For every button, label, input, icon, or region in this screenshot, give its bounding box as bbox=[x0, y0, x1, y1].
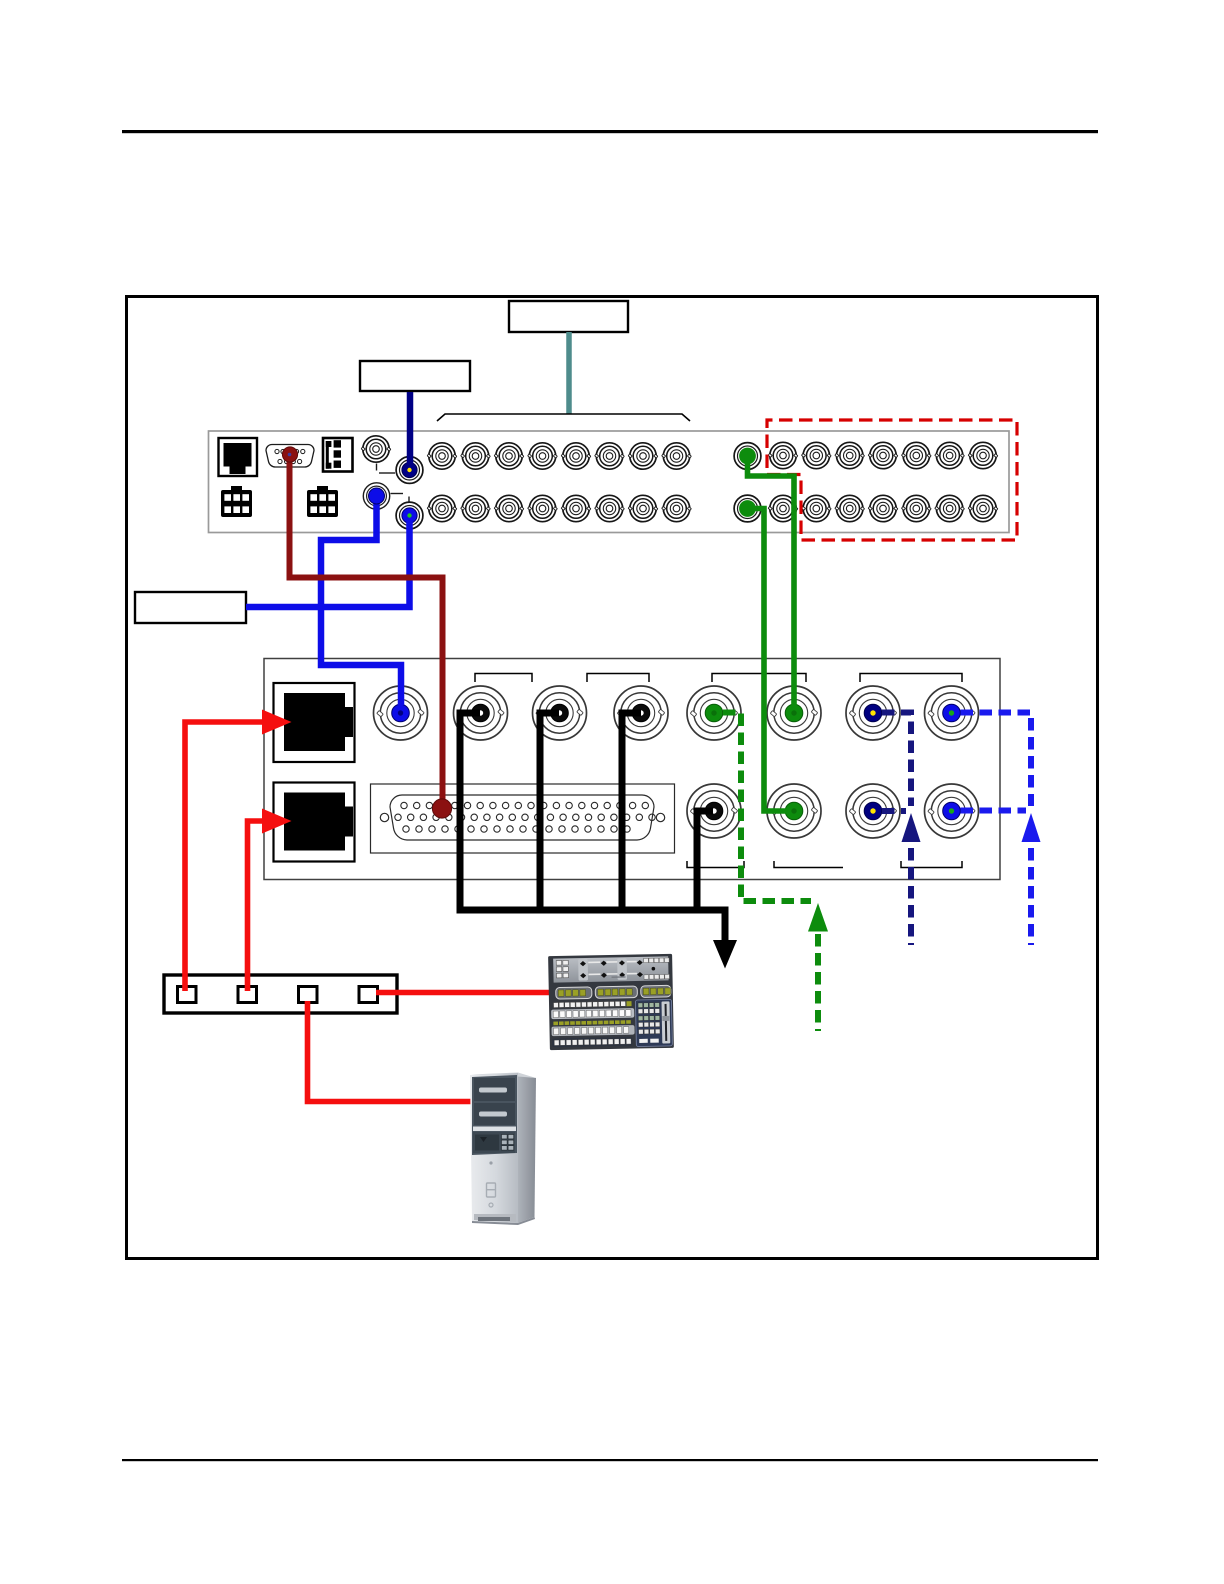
BNC input 13 (row 2) bbox=[561, 495, 591, 521]
red wire 2: hub port 2 to ethernet port 2 bbox=[248, 821, 265, 991]
bottom bracket (output pair) bbox=[774, 861, 843, 868]
BNC input 8 (row 1) bbox=[662, 443, 692, 469]
black wire 3 (video output 3) bbox=[622, 713, 641, 914]
BNC fill output 2 (processor) bbox=[925, 784, 979, 838]
BNC sync input (processor) bbox=[374, 686, 428, 740]
bracket over preview output BNCs bbox=[712, 674, 806, 683]
maroon plug on DB9 bbox=[282, 447, 297, 462]
power connector P1 (router) bbox=[221, 486, 252, 517]
red wire 4: hub port 4 to control panel bbox=[376, 990, 551, 996]
BNC preview output 1 (processor) bbox=[687, 686, 741, 740]
RJ45 ethernet port 2 (processor) bbox=[274, 783, 355, 862]
BNC input 6 (row 1) bbox=[595, 443, 625, 469]
processor rear panel (middle unit) bbox=[264, 659, 1000, 880]
blue arrowhead (up) bbox=[1022, 813, 1041, 842]
BNC program output 2 (processor) bbox=[767, 784, 821, 838]
blue cap on reference BNC bbox=[369, 488, 385, 504]
BNC monitor output 1 (row 1) bbox=[768, 442, 798, 468]
red wire 3: hub port 3 to computer bbox=[308, 1001, 475, 1102]
BNC video output 2 (processor) bbox=[533, 686, 587, 740]
DB9 serial connector (router) bbox=[266, 445, 314, 468]
BNC monitor output 11 (row 2) bbox=[868, 495, 898, 521]
dark blue wire: label box 2 to router input 1 bbox=[407, 392, 414, 466]
RJ45 ethernet port 1 (processor) bbox=[274, 683, 355, 762]
video switcher control panel (photo) bbox=[548, 954, 674, 1050]
BNC monitor output 10 (row 2) bbox=[835, 495, 865, 521]
label box 1 (top, reference callout) bbox=[509, 301, 628, 332]
BNC monitor output 8 (row 2) bbox=[768, 495, 798, 521]
BNC monitor output 13 (row 2) bbox=[935, 495, 965, 521]
BNC input 3 (row 1) bbox=[494, 443, 524, 469]
page top rule bbox=[122, 130, 1098, 133]
hub port 4 bbox=[359, 987, 378, 1003]
reference BNC (unplugged, top-left) bbox=[361, 436, 391, 462]
bottom bracket (preview pair) bbox=[687, 861, 744, 868]
computer tower (photo) bbox=[470, 1073, 536, 1226]
bracket over program output BNCs A bbox=[475, 674, 532, 683]
dark blue arrowhead (up) bbox=[902, 813, 921, 842]
BNC monitor output 7 (row 1) bbox=[968, 442, 998, 468]
maroon plug on DB50 pin bbox=[432, 799, 451, 818]
BNC monitor output 3 (row 1) bbox=[835, 442, 865, 468]
red arrowhead into ethernet port 1 bbox=[262, 710, 292, 735]
callout tick to blue input BNC bbox=[391, 493, 404, 495]
BNC key output 2 (processor) bbox=[846, 784, 900, 838]
plugged BNC, dark blue cable (router input 1) bbox=[396, 457, 423, 484]
plugged BNC, blue cable (router input 2) bbox=[396, 502, 423, 529]
green wire B: router output row2 to processor program out 2 bbox=[750, 509, 787, 812]
BNC input 14 (row 2) bbox=[595, 495, 625, 521]
teal callout leader wire bbox=[566, 332, 572, 414]
black bus wire to monitor bbox=[457, 910, 726, 941]
BNC key output 1 (processor) bbox=[846, 686, 900, 740]
plugged BNC, green cable (router output row 1) bbox=[734, 443, 761, 470]
BNC monitor output 12 (row 2) bbox=[901, 495, 931, 521]
blue wire A: reference out to processor sync in bbox=[321, 498, 401, 705]
BNC preview output 2 (processor) bbox=[687, 784, 741, 838]
BNC video output 3 (processor) bbox=[614, 686, 668, 740]
BNC input 2 (row 1) bbox=[461, 443, 491, 469]
BNC monitor output 4 (row 1) bbox=[868, 442, 898, 468]
3-position terminal block (router) bbox=[323, 438, 353, 472]
green dashed wire (preview out 1, direction arrow) bbox=[723, 713, 811, 902]
BNC video output 1 (processor) bbox=[454, 686, 508, 740]
BNC monitor output 6 (row 1) bbox=[935, 442, 965, 468]
green arrowhead (up) bbox=[808, 903, 828, 932]
BNC input 16 (row 2) bbox=[662, 495, 692, 521]
BNC input 9 (row 2) bbox=[427, 495, 457, 521]
BNC input 10 (row 2) bbox=[461, 495, 491, 521]
BNC monitor output 9 (row 2) bbox=[801, 495, 831, 521]
router rear panel (top unit) bbox=[209, 431, 1010, 533]
BNC monitor output 2 (row 1) bbox=[801, 442, 831, 468]
plugged BNC, green cable (router output row 2) bbox=[734, 495, 761, 522]
blue dashed wire (fill outputs loop) bbox=[961, 713, 1032, 807]
black wire 1 (video output 1) bbox=[460, 713, 480, 914]
hub port 3 bbox=[299, 987, 318, 1003]
RJ45 jack (router, control port) bbox=[219, 438, 258, 476]
label box 2 (above dark-blue cable) bbox=[360, 361, 470, 391]
BNC input 7 (row 1) bbox=[628, 443, 658, 469]
BNC monitor output 14 (row 2) bbox=[968, 495, 998, 521]
maroon wire: DB9 to DB50 pin bbox=[290, 458, 443, 800]
power connector P2 (router) bbox=[307, 486, 338, 517]
label box 3 (left, blue cable callout) bbox=[135, 592, 246, 623]
green wire A: router output row1 to processor program out 1 bbox=[748, 458, 795, 706]
bracket over reference loop BNCs bbox=[860, 674, 962, 683]
BNC input 1 (row 1) bbox=[427, 443, 457, 469]
BNC input 4 (row 1) bbox=[528, 443, 558, 469]
black arrowhead (down) bbox=[713, 940, 737, 969]
BNC monitor output 5 (row 1) bbox=[901, 442, 931, 468]
hub port 1 bbox=[178, 987, 197, 1003]
BNC input 15 (row 2) bbox=[628, 495, 658, 521]
BNC input 11 (row 2) bbox=[494, 495, 524, 521]
callout tick to dark-blue input BNC bbox=[376, 464, 378, 471]
BNC input 5 (row 1) bbox=[561, 443, 591, 469]
black wire 2 (video output 2) bbox=[540, 713, 559, 914]
blue wire B: router input 2 to label box 3 bbox=[246, 518, 410, 607]
bracket over program output BNCs B bbox=[587, 674, 649, 683]
dark blue dashed wire (key outputs loop) bbox=[882, 713, 911, 807]
outer diagram border box bbox=[127, 297, 1098, 1259]
BNC fill output 1 (processor) bbox=[925, 686, 979, 740]
bottom bracket (reference pair) bbox=[901, 861, 962, 868]
red wire 1: hub port 1 to ethernet port 1 bbox=[185, 722, 264, 991]
black wire 4 (preview output 2) bbox=[697, 811, 713, 914]
red dashed highlight box (monitor output group) bbox=[767, 420, 1017, 540]
BNC with blue cap (reference output) bbox=[363, 483, 389, 509]
page bottom rule bbox=[122, 1459, 1098, 1461]
BNC program output 1 (processor) bbox=[767, 686, 821, 740]
red arrowhead into ethernet port 2 bbox=[262, 809, 292, 834]
BNC input 12 (row 2) bbox=[528, 495, 558, 521]
hub port 2 bbox=[238, 987, 257, 1003]
ethernet hub bbox=[164, 975, 397, 1013]
DB50 control connector (processor) bbox=[371, 784, 675, 853]
grouping bracket over router input BNC rows bbox=[437, 414, 690, 421]
